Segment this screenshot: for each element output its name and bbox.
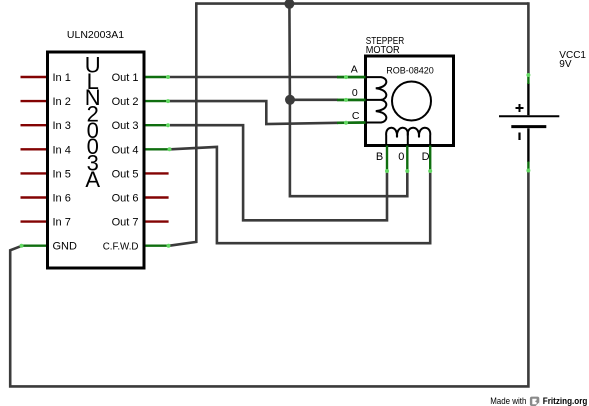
- wire net V+ top horizontal: [196, 2, 528, 5]
- junction dot middle: [285, 95, 295, 105]
- wire Out3 to stepper B: [170, 125, 387, 220]
- svg-text:Out 3: Out 3: [112, 120, 139, 132]
- wire junction to stepper pin 0 left: [290, 99, 338, 102]
- svg-text:MOTOR: MOTOR: [366, 45, 400, 56]
- junction dot top: [284, 0, 294, 9]
- stepper pin 0 left: [338, 87, 366, 102]
- wire GND net bottom: [10, 172, 528, 386]
- Fritzing footer: [490, 396, 587, 406]
- pin Out 7: [112, 217, 169, 229]
- pin In 4: [21, 144, 71, 156]
- IC U1 ULN2003A1 body: [48, 29, 145, 268]
- stepper bottom coil winding B-0: [386, 128, 408, 145]
- pin GND: [20, 241, 78, 253]
- svg-text:D: D: [422, 151, 430, 163]
- svg-text:Fritzing.org: Fritzing.org: [543, 396, 588, 406]
- svg-text:A: A: [85, 167, 100, 192]
- battery + pin green: [527, 73, 529, 84]
- pin Out 4: [112, 144, 172, 156]
- svg-text:9V: 9V: [559, 59, 572, 70]
- stepper pin A: [338, 63, 366, 79]
- wire Out4 to stepper D: [171, 147, 431, 243]
- wire V+ left vertical to C.F.W.D: [170, 2, 197, 245]
- stepper motor M1 body: [366, 36, 454, 146]
- battery - pin green: [527, 162, 529, 173]
- svg-text:In 7: In 7: [53, 217, 71, 229]
- svg-text:ULN2003A1: ULN2003A1: [67, 29, 124, 41]
- stepper pin 0 bottom: [398, 146, 409, 174]
- pin In 2: [21, 96, 71, 108]
- svg-text:In 4: In 4: [53, 144, 71, 156]
- svg-text:Made with: Made with: [490, 396, 526, 406]
- svg-text:Out 6: Out 6: [112, 193, 139, 205]
- svg-text:Out 4: Out 4: [112, 144, 139, 156]
- pin Out 1: [112, 72, 170, 84]
- svg-text:In 6: In 6: [53, 193, 71, 205]
- svg-text:0: 0: [352, 87, 358, 99]
- wire Out1 to stepper A: [169, 76, 339, 79]
- stepper pin C: [338, 110, 366, 125]
- stepper pin B: [376, 146, 389, 174]
- pin In 3: [21, 120, 71, 132]
- pin Out 6: [112, 193, 169, 205]
- pin Out 5: [112, 168, 169, 180]
- wire V+ right vertical to battery +: [527, 2, 530, 74]
- stepper left coil winding A-0: [366, 77, 386, 100]
- svg-text:In 2: In 2: [53, 96, 71, 108]
- wire Out2 to stepper C: [169, 101, 339, 124]
- svg-text:GND: GND: [53, 241, 78, 253]
- svg-text:Out 7: Out 7: [112, 217, 139, 229]
- svg-text:In 1: In 1: [53, 72, 71, 84]
- green wire end at stepper C: [337, 121, 366, 124]
- green wire end at stepper 0 left: [337, 99, 366, 102]
- stepper left coil winding 0-C: [366, 100, 386, 123]
- pin C.F.W.D: [103, 241, 171, 253]
- green wire end at stepper A: [337, 76, 366, 79]
- svg-text:A: A: [351, 63, 358, 75]
- stepper pin D: [422, 146, 433, 174]
- pin In 1: [21, 72, 71, 84]
- wire V+ middle vertical branch: [289, 4, 407, 197]
- svg-text:Out 5: Out 5: [112, 168, 139, 180]
- pin In 5: [21, 168, 71, 180]
- svg-text:C.F.W.D: C.F.W.D: [103, 241, 139, 253]
- svg-text:B: B: [376, 151, 383, 163]
- stepper bottom coil winding 0-D: [408, 128, 431, 145]
- svg-text:In 3: In 3: [53, 120, 71, 132]
- svg-text:In 5: In 5: [53, 168, 71, 180]
- svg-text:Out 2: Out 2: [112, 96, 139, 108]
- pin In 7: [21, 217, 71, 229]
- svg-text:Out 1: Out 1: [112, 72, 139, 84]
- pin Out 2: [112, 96, 170, 108]
- svg-text:0: 0: [398, 151, 404, 163]
- battery VCC1: [499, 50, 586, 162]
- pin In 6: [21, 193, 71, 205]
- svg-text:C: C: [352, 110, 360, 122]
- svg-text:ROB-08420: ROB-08420: [386, 66, 434, 76]
- pin Out 3: [112, 120, 170, 132]
